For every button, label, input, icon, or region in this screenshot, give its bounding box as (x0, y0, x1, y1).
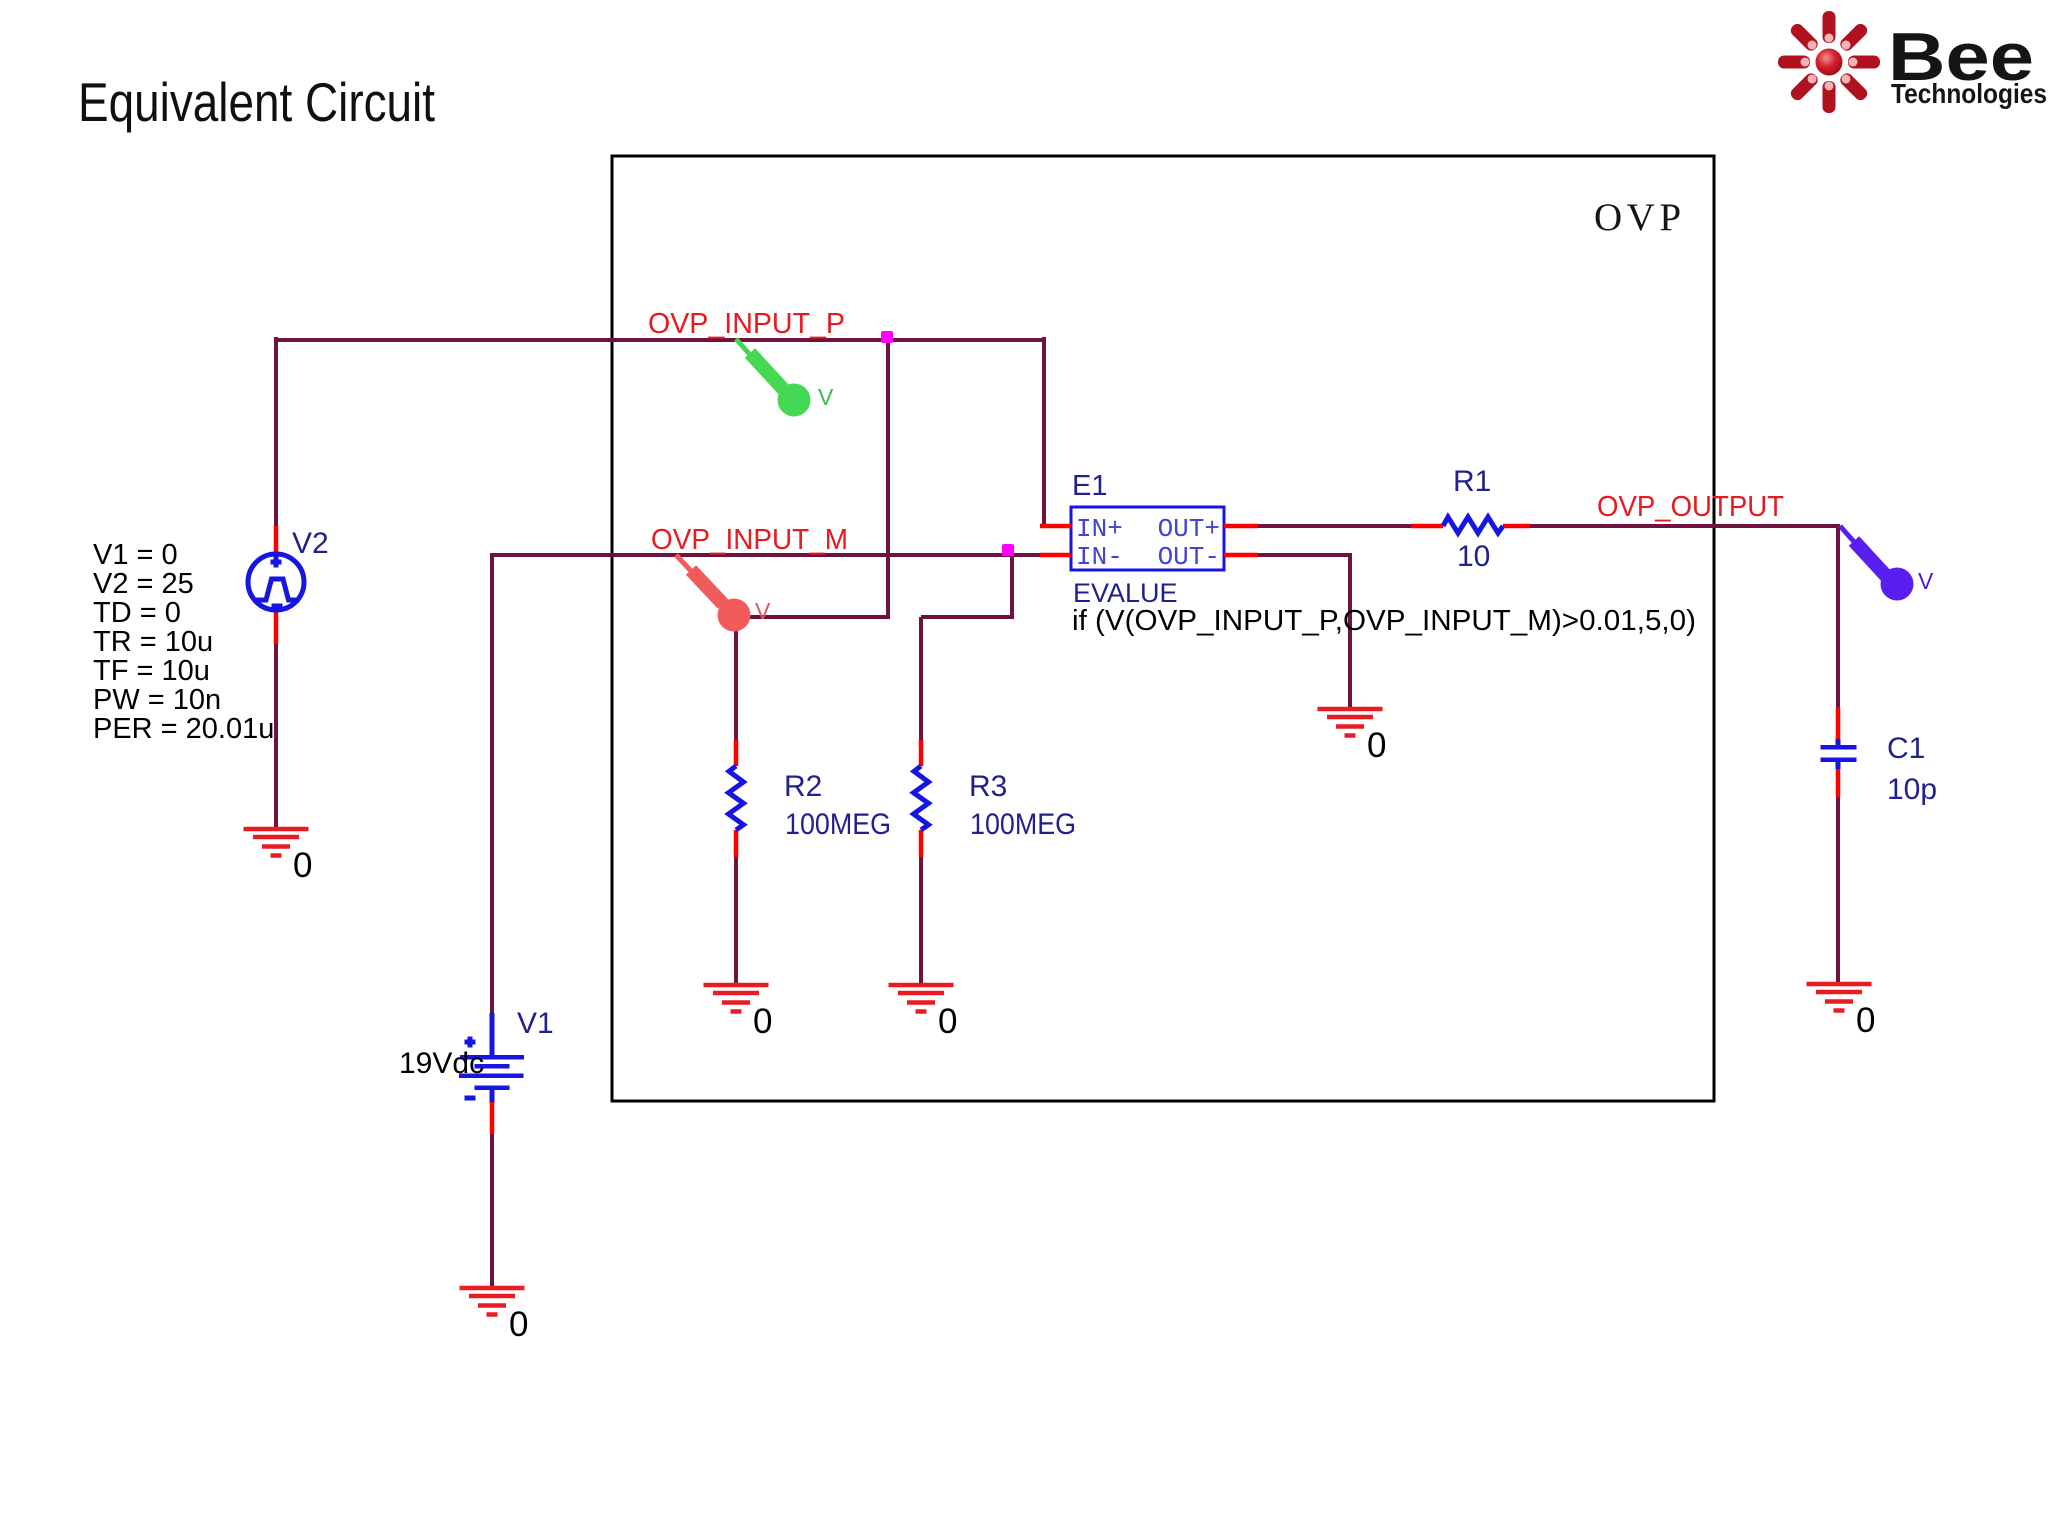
svg-text:OVP_OUTPUT: OVP_OUTPUT (1597, 491, 1784, 523)
svg-text:V: V (1918, 568, 1934, 594)
svg-text:V2: V2 (292, 527, 329, 560)
svg-text:E1: E1 (1072, 470, 1107, 502)
OVP block boundary (612, 156, 1714, 1101)
wire R3 top vertical (919, 617, 923, 740)
resistor R1 (1411, 517, 1530, 533)
resistor R3 (914, 740, 929, 857)
svg-text:EVALUE: EVALUE (1073, 578, 1178, 608)
svg-text:PER = 20.01u: PER = 20.01u (93, 713, 274, 745)
svg-text:V: V (818, 384, 834, 410)
svg-text:0: 0 (753, 1002, 772, 1041)
junction on OVP_INPUT_M (1002, 544, 1014, 556)
V2 parameter list (93, 539, 274, 745)
E-source E1 (1040, 507, 1258, 572)
svg-text:OVP_INPUT_P: OVP_INPUT_P (648, 308, 845, 340)
svg-text:0: 0 (293, 846, 312, 885)
ground below OUT- (1318, 707, 1387, 765)
svg-text:PW = 10n: PW = 10n (93, 684, 221, 716)
svg-text:R1: R1 (1453, 465, 1491, 498)
wire OVP_OUTPUT down to C1 (1836, 526, 1840, 709)
wire V2 top vertical (274, 337, 278, 527)
svg-text:19Vdc: 19Vdc (399, 1047, 484, 1080)
wire C1 bottom vertical (1836, 797, 1840, 986)
svg-text:OVP_INPUT_M: OVP_INPUT_M (651, 524, 848, 556)
svg-text:V1 = 0: V1 = 0 (93, 539, 178, 571)
capacitor C1 (1821, 707, 1857, 797)
junction on OVP_INPUT_P (881, 331, 893, 343)
voltage marker V green on OVP_INPUT_P (736, 339, 834, 417)
wire V1 bottom vertical (490, 1134, 494, 1289)
svg-text:Equivalent Circuit: Equivalent Circuit (78, 71, 435, 133)
svg-text:0: 0 (938, 1002, 957, 1041)
svg-text:100MEG: 100MEG (785, 808, 891, 841)
svg-text:R2: R2 (784, 770, 822, 803)
svg-text:100MEG: 100MEG (970, 808, 1076, 841)
svg-text:if (V(OVP_INPUT_P,OVP_INPUT_M): if (V(OVP_INPUT_P,OVP_INPUT_M)>0.01,5,0) (1072, 605, 1696, 637)
wire R2 bottom vertical (734, 857, 738, 986)
wire OUT+ to R1 (1256, 524, 1413, 528)
svg-text:IN-: IN- (1076, 542, 1123, 572)
resistor R2 (729, 740, 744, 857)
svg-text:OVP: OVP (1594, 196, 1686, 239)
svg-text:10p: 10p (1887, 773, 1937, 806)
svg-text:TD = 0: TD = 0 (93, 597, 181, 629)
ground below V1 (460, 1286, 529, 1344)
wire branch horizontal to R3 (921, 615, 1014, 619)
svg-text:IN+: IN+ (1076, 514, 1123, 544)
svg-text:R3: R3 (969, 770, 1007, 803)
svg-text:0: 0 (1367, 726, 1386, 765)
ground below V2 (244, 827, 313, 885)
wire junction branch down (886, 339, 890, 617)
battery V1 (459, 1013, 524, 1134)
wire OVP_INPUT_M horizontal (492, 553, 1044, 557)
wire OVP_INPUT_P down to IN+ (1042, 337, 1046, 527)
svg-text:0: 0 (1856, 1001, 1875, 1040)
svg-text:OUT-: OUT- (1158, 542, 1220, 572)
svg-text:0: 0 (509, 1305, 528, 1344)
wire OVP_INPUT_P horizontal (276, 338, 1044, 342)
wire R1 to OVP_OUTPUT corner (1528, 524, 1840, 528)
wire OUT- down to ground (1348, 555, 1352, 710)
Bee Technologies logo (1778, 11, 2047, 113)
svg-text:TF = 10u: TF = 10u (93, 655, 210, 687)
wire junction2 branch down (1010, 555, 1014, 617)
wire V2 bottom vertical (274, 644, 278, 830)
wire OUT- horizontal (1256, 553, 1352, 557)
svg-text:OUT+: OUT+ (1158, 514, 1220, 544)
voltage marker V red on OVP_INPUT_M (676, 555, 771, 632)
voltage marker V purple on OVP_OUTPUT (1840, 526, 1934, 601)
svg-text:C1: C1 (1887, 732, 1925, 765)
pulse source V2 (248, 526, 304, 644)
wire R3 bottom vertical (919, 857, 923, 986)
svg-text:V: V (755, 598, 771, 624)
wire V1 top vertical (490, 553, 494, 1013)
svg-text:10: 10 (1457, 540, 1490, 573)
wire branch horizontal to R2 (734, 615, 890, 619)
ground below R2 (704, 983, 773, 1041)
svg-text:TR = 10u: TR = 10u (93, 626, 213, 658)
svg-text:V2 = 25: V2 = 25 (93, 568, 194, 600)
ground below C1 (1807, 982, 1876, 1040)
wire R2 top vertical (734, 617, 738, 740)
ground below R3 (889, 983, 958, 1041)
svg-text:Technologies: Technologies (1891, 78, 2047, 109)
svg-text:V1: V1 (517, 1007, 554, 1040)
